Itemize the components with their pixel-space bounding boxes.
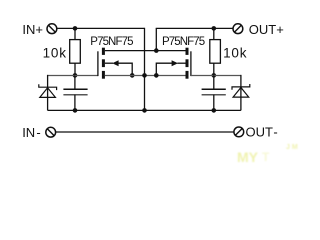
node J4 drain junction	[154, 48, 159, 53]
resistor R2 10k	[210, 28, 221, 75]
svg-text:P75NF75: P75NF75	[90, 36, 133, 48]
node A	[73, 73, 78, 78]
wire Q2 body arrow	[156, 60, 185, 75]
node bottom rail C1 junction	[73, 108, 78, 113]
resistor R1 10k	[70, 28, 81, 75]
node junction J1	[73, 26, 78, 31]
node bottom rail center junction	[142, 108, 147, 113]
transistor Q2 P75NF75 (N-MOSFET, mirrored)	[186, 48, 191, 79]
svg-text:J M: J M	[286, 144, 298, 151]
zener diode D1	[39, 84, 57, 110]
wire IN- to OUT-	[56, 131, 234, 133]
node B	[212, 73, 217, 78]
wire node B to zener D2	[214, 75, 242, 77]
wire OUT+ rail	[156, 27, 233, 29]
wire gate of Q2 from node B	[191, 75, 214, 77]
svg-text:OUT-: OUT-	[246, 124, 278, 139]
svg-text:IN+: IN+	[22, 22, 43, 37]
node Q2 body junction	[154, 73, 159, 78]
wire Q1 drain to node J4	[105, 50, 156, 52]
capacitor C1	[63, 75, 87, 110]
svg-text:OUT+: OUT+	[249, 22, 284, 37]
terminal IN+	[47, 24, 57, 34]
node junction J5	[212, 26, 217, 31]
terminal OUT-	[234, 127, 244, 137]
svg-text:10k: 10k	[223, 45, 247, 60]
watermark MY	[237, 144, 298, 165]
zener diode D2	[232, 84, 250, 110]
wire bottom gate-return rail	[48, 109, 241, 111]
svg-text:10k: 10k	[43, 45, 67, 60]
wire Q1 body arrow to source node	[105, 60, 132, 75]
terminal IN-	[46, 127, 56, 137]
wire node A to zener D1	[47, 75, 75, 77]
wire IN+ rail	[57, 27, 145, 29]
wire gate of Q1 from node A	[75, 75, 98, 77]
capacitor C2	[202, 75, 226, 110]
wire OUT+ drain vertical	[155, 28, 157, 50]
node Q1 body junction	[130, 73, 135, 78]
node bottom rail C2 junction	[212, 108, 217, 113]
node source/center junction	[142, 73, 147, 78]
svg-text:P75NF75: P75NF75	[162, 36, 205, 48]
transistor Q1 P75NF75 (N-MOSFET)	[98, 48, 105, 79]
terminal OUT+	[233, 24, 243, 34]
svg-text:T: T	[262, 150, 270, 164]
wire Q2 drain to node J4	[156, 50, 185, 52]
wire center vertical from IN+ rail to source node and bottom rail	[144, 28, 146, 111]
wire common source rail	[105, 75, 186, 77]
svg-text:MY: MY	[237, 149, 259, 164]
svg-text:IN-: IN-	[22, 125, 41, 140]
